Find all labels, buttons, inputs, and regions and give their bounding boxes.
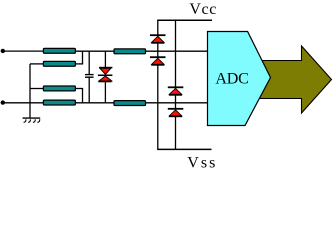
- ground: [23, 118, 41, 122]
- node IN- (bottom input terminal dot): [1, 100, 5, 104]
- diode D5/D6 common cathode bar: [98, 75, 113, 77]
- resistor R6: [114, 101, 146, 106]
- diode D4 (triangle pointing up): [169, 110, 181, 116]
- wire R3 right to junction: [75, 88, 83, 90]
- diode D5 (anode bar): [99, 67, 112, 69]
- wire junction vertical R1/R2: [82, 51, 84, 64]
- wire top rail: R1 to R5: [75, 50, 114, 52]
- svg-text:ADC: ADC: [215, 71, 248, 88]
- Vcc rail: [157, 19, 212, 21]
- resistor R4: [43, 100, 75, 105]
- capacitor C1: [85, 75, 94, 78]
- wire R2 right to junction: [75, 63, 83, 65]
- wire clamp bus 2 (Vcc to Vss through D3/D4): [175, 20, 177, 149]
- converter block U1 ADC body: [208, 32, 271, 126]
- diode D6 (triangle pointing up): [99, 76, 112, 81]
- diode D6 (anode bar): [98, 81, 111, 83]
- resistor R3: [43, 86, 75, 91]
- resistor R5: [114, 49, 146, 54]
- svg-text:Vcc: Vcc: [189, 1, 217, 18]
- wire clamp bus 1 (Vcc to Vss through D1/D2): [157, 20, 159, 149]
- diode D1 (clamp to Vcc, cathode bar): [150, 34, 166, 36]
- wire bottom rail: R4 to R6: [75, 102, 114, 104]
- capacitor C1 top lead: [88, 51, 90, 74]
- diode D4 (clamp from Vss, cathode bar): [168, 108, 184, 110]
- Vss rail: [157, 148, 211, 150]
- diode D2 (clamp from Vss, cathode bar): [150, 56, 166, 58]
- diode D3 (clamp to Vcc, cathode bar): [168, 86, 184, 88]
- wire IN+ to R1: [3, 50, 44, 52]
- diode pair D5/D6 top lead: [104, 51, 106, 67]
- capacitor C1 bottom lead: [88, 78, 90, 103]
- resistor R2: [43, 61, 75, 66]
- wire R2 left to vertical bus: [30, 63, 43, 65]
- wire junction vertical R3/R4: [82, 89, 84, 103]
- svg-text:Vss: Vss: [187, 155, 217, 172]
- node IN+ (top input terminal dot): [1, 49, 5, 53]
- diode D1 (anode base line): [151, 42, 164, 43]
- diode D2 (anode base line): [151, 64, 164, 65]
- diode D2 (triangle pointing up): [152, 58, 164, 64]
- diode D5 (triangle pointing down): [100, 68, 111, 74]
- wire R3 left to vertical bus: [30, 88, 43, 90]
- resistor R1: [43, 48, 75, 53]
- output arrow (digital data out): [260, 46, 332, 113]
- wire IN- to R4: [3, 102, 44, 104]
- wire bottom rail: R6 to ADC: [146, 102, 208, 104]
- wire ground bus vertical: [29, 64, 31, 118]
- diode pair bottom lead: [104, 82, 106, 103]
- diode D3 (triangle pointing up): [169, 88, 181, 94]
- diode D4 (anode base line): [169, 116, 182, 117]
- diode D1 (triangle pointing up): [152, 36, 164, 42]
- diode D3 (anode base line): [169, 94, 182, 95]
- wire top rail: R5 to ADC: [146, 50, 208, 52]
